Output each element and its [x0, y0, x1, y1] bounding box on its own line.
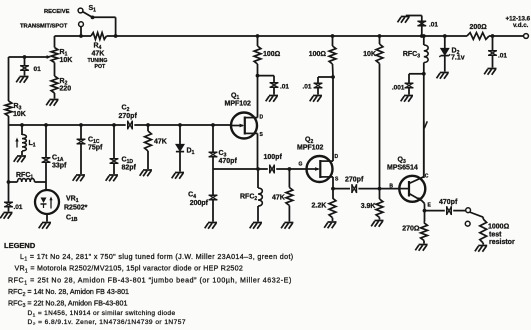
svg-text:82pf: 82pf — [122, 164, 137, 171]
svg-text:470pf: 470pf — [219, 158, 238, 165]
svg-text:47K: 47K — [272, 195, 285, 202]
svg-text:47K: 47K — [92, 51, 105, 58]
svg-text:LEGEND: LEGEND — [4, 241, 36, 250]
svg-text:MPF102: MPF102 — [225, 101, 252, 108]
svg-text:100pf: 100pf — [264, 154, 283, 161]
svg-text:D: D — [335, 154, 339, 160]
svg-text:.01: .01 — [302, 84, 311, 91]
svg-text:1000Ω: 1000Ω — [488, 224, 510, 231]
svg-text:200Ω: 200Ω — [470, 24, 488, 31]
svg-text:B: B — [389, 184, 393, 190]
svg-text:01: 01 — [34, 66, 42, 73]
svg-text:470pf: 470pf — [439, 199, 458, 206]
svg-text:75pf: 75pf — [88, 145, 103, 152]
svg-text:R2502*: R2502* — [64, 205, 88, 212]
svg-text:100Ω: 100Ω — [309, 51, 327, 58]
svg-text:200pf: 200pf — [190, 200, 209, 207]
svg-text:.01: .01 — [280, 84, 289, 91]
svg-text:TRANSMIT/SPOT: TRANSMIT/SPOT — [20, 23, 68, 29]
svg-text:33pf: 33pf — [52, 163, 67, 170]
svg-text:2.2K: 2.2K — [312, 203, 327, 210]
svg-text:7.1v: 7.1v — [451, 55, 465, 62]
svg-text:100Ω: 100Ω — [263, 51, 281, 58]
svg-text:270Ω: 270Ω — [402, 226, 420, 233]
svg-text:.01: .01 — [429, 22, 438, 29]
svg-text:270pf: 270pf — [119, 113, 138, 120]
svg-text:.01: .01 — [498, 53, 507, 60]
svg-text:C: C — [425, 174, 429, 180]
svg-text:220: 220 — [60, 86, 72, 93]
svg-text:10K: 10K — [60, 57, 73, 64]
svg-text:MPF102: MPF102 — [297, 145, 324, 152]
svg-text:.01: .01 — [14, 204, 23, 211]
svg-text:POT: POT — [95, 64, 106, 70]
svg-text:10K: 10K — [363, 51, 376, 58]
svg-text:resistor: resistor — [489, 239, 515, 246]
svg-text:.001: .001 — [392, 85, 405, 92]
svg-text:MPS6514: MPS6514 — [387, 165, 418, 172]
svg-text:D2 = 6.8/9.1v. Zener, 1N4736/: D2 = 6.8/9.1v. Zener, 1N4736/1N4739 or 1… — [28, 319, 186, 325]
svg-text:270pf: 270pf — [345, 177, 364, 184]
svg-text:v.d.c.: v.d.c. — [513, 22, 529, 29]
svg-text:10K: 10K — [13, 111, 26, 118]
svg-text:D: D — [260, 115, 264, 121]
svg-text:3.9K: 3.9K — [361, 203, 376, 210]
svg-text:G: G — [299, 162, 303, 168]
svg-text:test: test — [489, 231, 502, 238]
svg-text:RECEIVE: RECEIVE — [44, 9, 70, 15]
svg-text:47K: 47K — [154, 139, 167, 146]
